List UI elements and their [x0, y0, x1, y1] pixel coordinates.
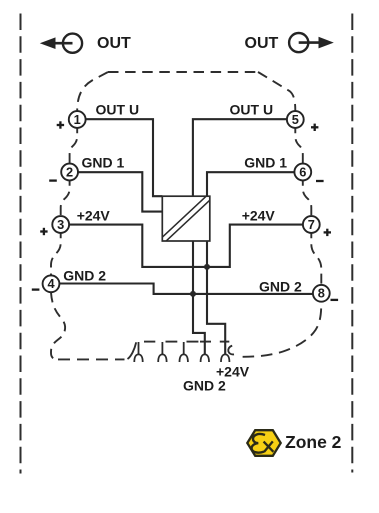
polarity - at terminal 2 [49, 179, 57, 181]
junction dot GND 2 [190, 291, 196, 297]
dashed enclosure bottom-right curve up to terminal 8 [239, 302, 322, 356]
right zone boundary dashed line [351, 14, 353, 473]
dashed enclosure rise to rail-contact row [128, 342, 137, 359]
Ex hazardous area hexagon symbol [247, 430, 280, 456]
dashed enclosure rail row dash 3 [187, 341, 199, 343]
polarity + at terminal 3 [40, 228, 47, 235]
wire terminal 5 to converter top [193, 119, 287, 196]
rail contact foot 4 (GND 2) [201, 354, 209, 362]
polarity - at terminal 8 [331, 299, 339, 301]
svg-text:GND 2: GND 2 [63, 268, 106, 284]
dashed enclosure segment terminal 6 to 7 [303, 181, 312, 216]
signal flow symbol OUT right (circle + arrow) [289, 33, 334, 52]
svg-text:5: 5 [292, 112, 299, 127]
dashed enclosure top-right corner [258, 72, 295, 111]
polarity - at terminal 4 [32, 288, 40, 290]
dashed device enclosure top edge [108, 71, 258, 73]
svg-text:GND 2: GND 2 [259, 278, 302, 294]
svg-text:OUT: OUT [97, 35, 131, 52]
dashed enclosure segment terminal 5 to 6 [295, 128, 303, 163]
polarity + at terminal 7 [324, 229, 331, 236]
dashed enclosure hook right of rail contact 5 [228, 346, 234, 355]
polarity - at terminal 6 [316, 180, 324, 182]
dashed enclosure segment terminal 3 to 4 [51, 233, 61, 275]
svg-text:2: 2 [66, 164, 73, 179]
terminal 6 [294, 164, 311, 181]
svg-text:8: 8 [318, 286, 325, 301]
terminal 7 [303, 216, 320, 233]
wire terminal 6 to converter top [207, 172, 294, 196]
dashed enclosure rail row dash 2 [166, 341, 178, 343]
dashed enclosure segment terminal 1 to 2 [70, 128, 78, 163]
wire GND 2 net terminal 4 to terminal 8 [59, 284, 313, 294]
dashed enclosure bottom-left edge [58, 358, 125, 360]
svg-text:GND 2: GND 2 [183, 378, 226, 394]
dashed enclosure rail row dash 4 [200, 341, 211, 343]
rail contact foot 1 [134, 342, 142, 362]
rail contact foot 3 [180, 342, 188, 362]
wire terminal 2 to converter left [78, 172, 162, 211]
svg-text:GND 1: GND 1 [244, 155, 287, 171]
dashed enclosure segment terminal 7 to 8 [311, 233, 321, 285]
dashed enclosure rail row dash 1 [144, 341, 155, 343]
svg-text:+24V: +24V [242, 207, 276, 223]
left zone boundary dashed line [20, 14, 22, 474]
terminal 8 [313, 285, 330, 302]
svg-text:+24V: +24V [77, 207, 111, 223]
wire terminal 1 to converter top-left [86, 119, 163, 196]
dashed enclosure segment terminal 4 to bottom (brace curve) [51, 293, 65, 360]
DC/DC converter isolation block U1 [162, 196, 210, 241]
wire +24V net terminal 3 to terminal 7 [69, 225, 303, 267]
signal flow symbol OUT left (arrow + circle) [40, 34, 82, 53]
svg-text:OUT: OUT [245, 35, 279, 52]
svg-text:7: 7 [308, 217, 315, 232]
dashed enclosure top-left corner [77, 72, 108, 111]
rail contact foot 5 (+24V) [221, 354, 229, 362]
wire converter bottom pin to rail contact 5 (+24V) [207, 241, 225, 355]
svg-text:1: 1 [74, 112, 81, 127]
wire converter bottom pin to rail contact 4 [193, 241, 205, 355]
terminal 5 [287, 111, 304, 128]
svg-text:4: 4 [47, 276, 55, 291]
terminal 2 [61, 164, 78, 181]
dashed enclosure rail row dash 5 [220, 341, 230, 343]
svg-text:3: 3 [57, 217, 64, 232]
junction dot +24V [204, 264, 210, 270]
terminal 3 [52, 216, 69, 233]
terminal 4 [43, 275, 60, 292]
polarity + at terminal 1 [57, 121, 64, 128]
svg-text:GND 1: GND 1 [82, 155, 125, 171]
dashed enclosure segment terminal 2 to 3 [61, 181, 70, 216]
polarity + at terminal 5 [311, 124, 318, 131]
svg-text:6: 6 [299, 164, 306, 179]
svg-text:Zone 2: Zone 2 [285, 432, 342, 452]
svg-text:OUT U: OUT U [230, 102, 274, 118]
rail contact foot 2 [158, 342, 166, 362]
svg-text:OUT U: OUT U [96, 102, 140, 118]
terminal 1 [69, 111, 86, 128]
